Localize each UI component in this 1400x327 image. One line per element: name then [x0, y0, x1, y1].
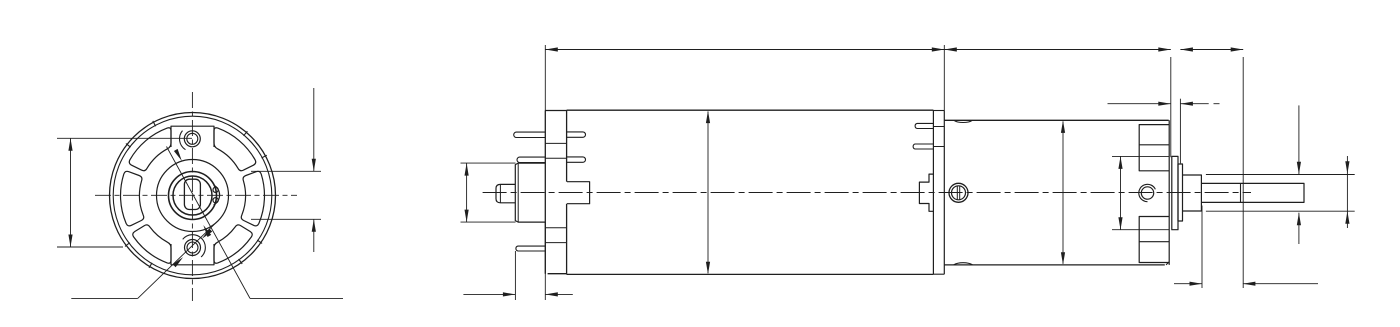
- top screw hole boss arc: [179, 131, 185, 150]
- output shaft: [1201, 183, 1304, 202]
- bearing bore: [173, 176, 212, 215]
- top screw hole: [184, 131, 200, 147]
- terminal pin upper right (inside can): [567, 132, 586, 137]
- bottom screw hole: [185, 240, 201, 256]
- extension line can end top: [943, 45, 945, 111]
- front right tangent extension bottom: [251, 218, 321, 220]
- endcap brush plate lines: [545, 142, 566, 144]
- top notch recess: [171, 126, 214, 147]
- flange web screw hole: [1141, 187, 1153, 199]
- flange plate 2: [1178, 164, 1183, 221]
- endcap: [544, 111, 546, 274]
- terminal pin right-end upper: [915, 123, 933, 128]
- extension line flange face (long): [1170, 57, 1172, 157]
- gearbox bottom crimp notch: [954, 263, 973, 265]
- terminal pin right-end lower: [913, 144, 933, 149]
- terminal pin lower right (inside can): [567, 157, 586, 162]
- terminal pin upper left: [514, 132, 546, 137]
- flange height dimension: [1112, 155, 1169, 157]
- bearing pocket right (stepped): [919, 174, 933, 211]
- screw hole boss diameter leader: [71, 297, 137, 299]
- shaft bottom dimension: [1201, 206, 1203, 289]
- front view vertical centerline: [191, 92, 193, 301]
- flange tab crown top block: [1139, 125, 1169, 171]
- front left dimension extension line bottom: [57, 246, 123, 248]
- dimension flange plate width (outside arrows): [1108, 103, 1171, 105]
- can end brush lines: [933, 126, 944, 128]
- extension line shaft flat end (long): [1242, 57, 1244, 288]
- gearbox diameter dimension: [1062, 122, 1064, 264]
- motor front face inner rim: [113, 116, 272, 275]
- shaft dia dimension inner: [1298, 105, 1300, 174]
- collar dia dimension outer: [1346, 156, 1348, 228]
- dimension line flange-to-step: [1180, 49, 1243, 51]
- retaining C-clip: [214, 185, 220, 205]
- shaft flat step: [1240, 183, 1242, 202]
- gearbox bottom edge: [944, 264, 1165, 266]
- motor can top edge: [567, 109, 934, 111]
- bore flats (double-D): [184, 179, 200, 209]
- dimension line gearbox length: [944, 49, 1171, 51]
- flange tab crown bottom block: [1139, 217, 1169, 263]
- extension line collar face top: [1179, 99, 1181, 164]
- center boss circle: [157, 160, 229, 232]
- flange crown right edge: [1168, 120, 1170, 265]
- can diameter dimension: [707, 112, 709, 274]
- flange plate: [1172, 156, 1178, 229]
- arch window top-left: [129, 128, 171, 171]
- rear boss dia dimension: [461, 162, 516, 164]
- terminal pin bottom left: [516, 246, 545, 251]
- arch window left: [121, 171, 144, 226]
- front right dimension line: [313, 88, 315, 171]
- gearbox top edge: [944, 119, 1168, 121]
- front right tangent extension top: [251, 170, 321, 172]
- leader underline bottom right: [250, 297, 343, 299]
- rear bearing boss: [515, 163, 545, 222]
- bottom notch recess: [171, 244, 214, 265]
- rim tick marks: [262, 155, 267, 158]
- boss diameter leader line: [167, 147, 251, 299]
- collar tangent extension top: [1206, 174, 1355, 176]
- arch window top-right: [214, 128, 256, 171]
- gearbox top crimp notch: [954, 120, 973, 122]
- front view horizontal centerline: [95, 194, 297, 196]
- arch window right (wraps 0 deg): [241, 171, 264, 226]
- extension line rear (endcap face up): [544, 45, 546, 111]
- motor front face outer rim: [110, 113, 276, 279]
- terminal pin lower left: [517, 157, 545, 162]
- shaft collar: [1183, 175, 1202, 211]
- arch window bottom-left: [133, 225, 171, 263]
- bottom screw hole boss arc: [183, 235, 206, 257]
- dimension line can length: [545, 49, 944, 51]
- front left dimension extension line top (through hole): [57, 137, 192, 139]
- gearbox screw head: [949, 183, 968, 202]
- bearing pocket left: [567, 182, 590, 204]
- motor can bottom edge: [567, 273, 934, 275]
- front left dimension line: [70, 138, 72, 247]
- side view centerline: [483, 192, 1251, 194]
- rear boss depth dimension (outside arrows): [514, 251, 516, 300]
- inner circle dia48: [169, 172, 217, 220]
- collar tangent extension bottom: [1206, 210, 1355, 212]
- can right end lines: [932, 110, 934, 274]
- rear bearing holder box: [496, 184, 515, 202]
- arch window bottom-right: [214, 225, 252, 263]
